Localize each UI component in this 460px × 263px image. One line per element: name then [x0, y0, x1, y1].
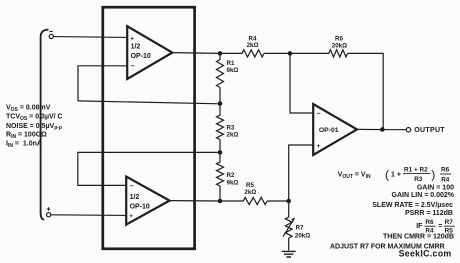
svg-text:+: +	[130, 35, 134, 42]
svg-text:9kΩ: 9kΩ	[227, 67, 239, 74]
node R4 / R6 junction	[288, 51, 293, 56]
resistor R5 2k	[220, 182, 289, 204]
svg-text:TCVOS = 0.3µV/ C: TCVOS = 0.3µV/ C	[6, 114, 63, 122]
wire U2 inverting input feedback loop	[78, 152, 220, 185]
input terminal (-)	[49, 32, 53, 39]
node R5 / R7 junction	[286, 199, 291, 204]
input source bracket	[41, 30, 49, 220]
wire node to U3 noninverting input	[289, 145, 314, 201]
resistor R6 20k	[290, 36, 383, 129]
svg-text:1/2: 1/2	[130, 194, 140, 201]
svg-text:+: +	[317, 143, 321, 150]
svg-text:VOUT = VIN: VOUT = VIN	[338, 171, 371, 179]
svg-text:R1 + R2: R1 + R2	[404, 166, 428, 173]
node R3 / R2 / U2 feedback junction	[218, 150, 223, 155]
node U1 output / R1 / R4 junction	[218, 51, 223, 56]
svg-text:GAIN LIN = 0.002%: GAIN LIN = 0.002%	[392, 192, 455, 199]
svg-text:R6: R6	[335, 36, 343, 43]
svg-text:R3: R3	[414, 176, 423, 183]
svg-text:THEN CMRR = 120dB: THEN CMRR = 120dB	[383, 234, 454, 241]
svg-text:–: –	[130, 183, 134, 190]
op-amp U2 1/2 OP-10	[126, 177, 169, 225]
resistor R4 2k	[220, 35, 290, 57]
resistor R1 9k	[217, 53, 239, 103]
svg-text:PSRR = 112dB: PSRR = 112dB	[405, 210, 453, 217]
svg-text:VOS = 0.08mV: VOS = 0.08mV	[6, 104, 51, 112]
annotation: input spec text	[6, 104, 63, 149]
svg-text:–: –	[131, 63, 135, 70]
wire U1 inverting input feedback loop	[78, 66, 220, 104]
svg-text:9kΩ: 9kΩ	[227, 179, 239, 186]
dual op-amp package outline	[103, 7, 195, 249]
svg-text:OUTPUT: OUTPUT	[414, 127, 445, 134]
svg-text:SeekIC.com: SeekIC.com	[399, 249, 452, 259]
input terminal (+)	[47, 207, 51, 216]
svg-text:NOISE = 0.5µVp-p: NOISE = 0.5µVp-p	[6, 123, 62, 131]
op-amp U1 1/2 OP-10	[127, 26, 172, 79]
svg-text:R7: R7	[296, 224, 304, 231]
svg-text:20kΩ: 20kΩ	[332, 43, 347, 50]
svg-text:1/2: 1/2	[131, 44, 141, 51]
svg-text:1 +: 1 +	[391, 171, 401, 178]
svg-text:20kΩ: 20kΩ	[295, 232, 310, 239]
svg-text:(: (	[385, 168, 389, 182]
svg-text:R4: R4	[441, 176, 450, 183]
svg-text:): )	[431, 168, 435, 182]
svg-text:OP-10: OP-10	[130, 203, 150, 210]
wire top input to U1 noninverting input	[54, 36, 128, 39]
svg-text:OP-10: OP-10	[131, 53, 151, 60]
annotation: gain formula and performance text	[330, 166, 455, 250]
svg-text:R2: R2	[227, 172, 235, 179]
svg-text:–: –	[317, 110, 321, 117]
node U2 output / R2 / R5 junction	[218, 199, 223, 204]
svg-text:R7: R7	[445, 219, 454, 226]
svg-text:=: =	[438, 223, 442, 230]
svg-text:R6: R6	[425, 219, 434, 226]
svg-text:2kΩ: 2kΩ	[247, 42, 259, 49]
svg-text:SLEW RATE = 2.5V/µsec: SLEW RATE = 2.5V/µsec	[372, 202, 453, 209]
wire U2 output to node	[170, 200, 220, 202]
svg-text:IIN = 1.0nA: IIN = 1.0nA	[6, 141, 42, 149]
resistor R3 2k	[217, 104, 239, 153]
resistor R7 20k variable	[283, 201, 310, 251]
node U3 output / R6 junction	[380, 127, 385, 132]
wire U3 output to OUTPUT terminal	[357, 128, 406, 130]
svg-text:IF: IF	[416, 223, 423, 230]
op-amp U3 OP-01	[313, 104, 357, 155]
svg-text:OP-01: OP-01	[319, 127, 339, 134]
wire bottom input to U2 noninverting input	[51, 214, 127, 217]
output terminal OUTPUT	[406, 127, 445, 134]
svg-text:GAIN = 100: GAIN = 100	[417, 185, 454, 192]
svg-text:+: +	[129, 213, 133, 220]
wire node to U3 inverting input	[290, 53, 313, 113]
watermark SeekIC.com	[399, 249, 452, 259]
svg-text:R5: R5	[246, 182, 254, 189]
resistor R2 9k	[217, 152, 239, 201]
svg-text:R6: R6	[441, 167, 450, 174]
svg-text:R3: R3	[227, 124, 235, 131]
wire U1 output to node	[172, 52, 220, 55]
svg-text:2kΩ: 2kΩ	[244, 189, 256, 196]
node R1 / R3 / U1 feedback junction	[218, 101, 223, 106]
svg-text:2kΩ: 2kΩ	[227, 131, 239, 138]
ground	[282, 251, 296, 257]
